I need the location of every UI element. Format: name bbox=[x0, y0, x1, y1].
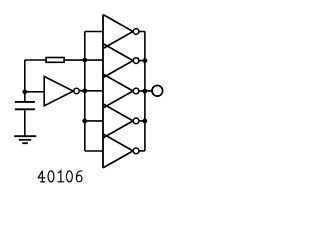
wire output bus bbox=[144, 32, 146, 151]
wire bbox=[139, 150, 145, 152]
node B bbox=[82, 88, 87, 93]
bubble U1D bbox=[133, 88, 139, 94]
node A bbox=[22, 89, 27, 94]
node bbox=[143, 89, 148, 94]
wire bbox=[85, 120, 103, 122]
wire bbox=[139, 90, 145, 92]
wire bbox=[25, 59, 46, 61]
ground bbox=[14, 136, 36, 143]
inverter U1E bbox=[103, 104, 133, 138]
bubble U1B bbox=[133, 29, 139, 35]
wire triangle input edge bus bbox=[102, 15, 104, 168]
wire bbox=[25, 91, 44, 93]
wire bbox=[139, 31, 145, 33]
wire bbox=[139, 60, 145, 62]
inverter U1C bbox=[103, 44, 133, 78]
bubble U1C bbox=[133, 58, 139, 64]
node bbox=[143, 58, 148, 63]
wire bbox=[85, 31, 103, 33]
bubble U1A bbox=[74, 88, 80, 94]
wire bbox=[139, 120, 145, 122]
node bbox=[82, 58, 87, 63]
node bbox=[143, 119, 148, 124]
wire input bus bbox=[84, 32, 86, 152]
bubble U1F bbox=[133, 148, 139, 154]
wire bbox=[24, 60, 26, 92]
inverter U1F bbox=[103, 134, 133, 168]
node bbox=[82, 119, 87, 124]
resistor R1 bbox=[46, 58, 64, 63]
inverter U1B bbox=[103, 15, 133, 49]
inverter U1D bbox=[103, 74, 133, 108]
label 40106 bbox=[38, 171, 82, 182]
wire bbox=[145, 90, 152, 92]
output terminal bbox=[152, 85, 163, 96]
wire bbox=[85, 150, 103, 152]
capacitor C1 bbox=[15, 92, 35, 136]
wire bbox=[79, 90, 103, 92]
wire bbox=[65, 59, 103, 61]
bubble U1E bbox=[133, 118, 139, 124]
inverter U1A bbox=[44, 76, 73, 105]
